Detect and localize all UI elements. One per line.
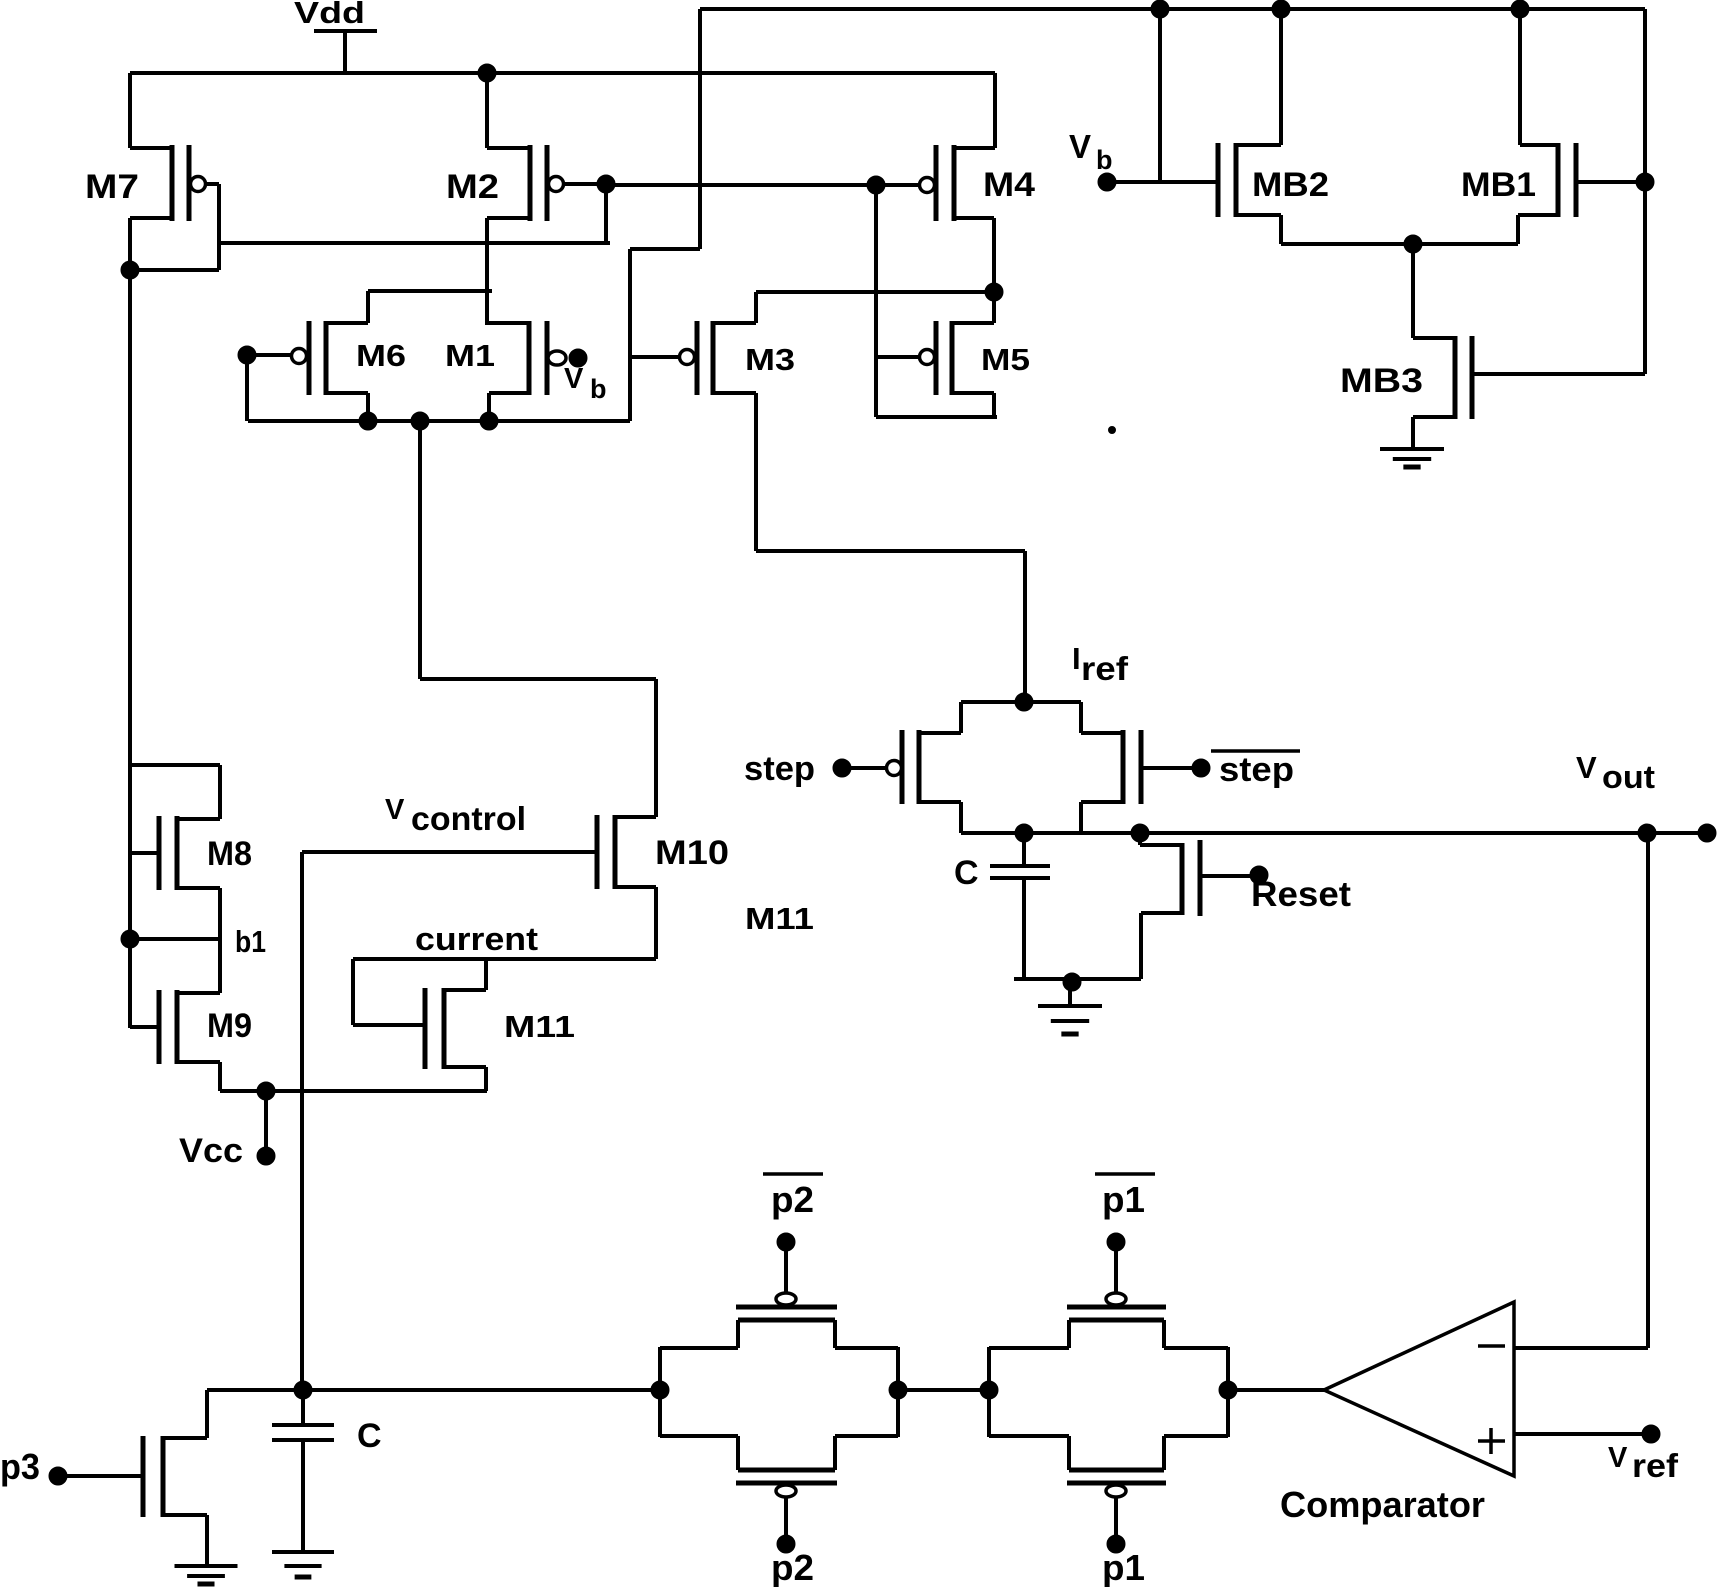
node bottom net junction [294,1381,312,1399]
node Vout terminal [1698,824,1716,842]
node Vout label [1576,750,1655,795]
transistor M9 [130,990,252,1091]
node MB1 gate junction [1636,173,1654,191]
svg-text:p1: p1 [1102,1179,1145,1220]
svg-text:MB1: MB1 [1461,166,1536,204]
transistor M8 [130,765,252,993]
ground MB3 [1380,449,1444,467]
node Comparator label [1280,1484,1485,1525]
wire Vcontrol [302,852,597,1390]
node M11 duplicate label [745,901,814,936]
svg-text:I: I [1072,641,1081,676]
svg-text:p1: p1 [1102,1547,1145,1587]
wire left bias chain vertical [128,270,132,1028]
node step-bar terminal [1192,759,1210,777]
node M6 gate terminal [238,346,256,364]
svg-text:MB3: MB3 [1340,362,1423,400]
svg-text:b: b [1096,145,1113,175]
node Vdd-M2 junction [478,64,496,82]
node Vb label at M1 [564,363,607,404]
transistor M6 [247,291,492,421]
node Iref label [1072,641,1129,687]
svg-text:M4: M4 [983,166,1035,204]
node MB3 drain junction [1404,235,1422,253]
node p2 gate terminals [777,1233,795,1553]
wire Vb rail drop [1158,9,1162,183]
wire M9-M11 source wire [220,1089,487,1093]
wire M3 source to Iref [756,393,1025,702]
transistor p3 [58,1390,207,1566]
node p3 terminal [49,1467,67,1485]
node cap ground junction [1063,973,1081,991]
node M4 gate tap [867,176,885,194]
wire top rail right drop [1643,9,1647,374]
wire M7-M2 gate wire [219,241,610,245]
svg-text:M5: M5 [981,342,1030,377]
svg-text:M1: M1 [445,338,495,373]
svg-text:C: C [954,854,979,892]
svg-text:C: C [357,1417,382,1455]
wire top rail [700,7,1645,11]
node M1 gate Vb terminal [569,349,587,367]
node TG1 left junction [651,1381,669,1399]
transmission gate step [842,702,1201,833]
node M4 drain [985,283,1003,301]
transistor M4 [920,73,1036,323]
node b1 [121,930,139,948]
node step-bar label [1211,751,1300,789]
transistor M2 [446,73,604,325]
node p3 label [0,1446,40,1487]
svg-text:current: current [415,921,538,957]
transistor MB3 [1340,244,1645,449]
node Vcc junction [257,1082,275,1100]
wire MB1-MB2 source rail [1281,242,1518,246]
wire M3-M4 drain link [756,290,996,294]
svg-text:p2: p2 [771,1547,814,1587]
wire Vb to MB2 gate [1107,180,1218,184]
wire Vcc stub [264,1091,268,1156]
wire cap bottom [1014,977,1141,981]
node Vref label [1608,1442,1679,1484]
svg-text:V: V [564,363,584,395]
node top rail junctions [1151,0,1529,18]
capacitor C bottom [272,1390,382,1552]
wire M6-M1 source rail [248,419,630,423]
wire M5 source link [876,415,997,419]
svg-text:V: V [1608,1442,1628,1474]
svg-text:Vdd: Vdd [294,0,365,30]
node Reset drain junction [1131,824,1149,842]
svg-text:M2: M2 [446,168,499,206]
wire M4-gate to M5 drop [874,185,878,417]
node step label [744,750,815,788]
node TG bottom junction [1015,824,1033,842]
transistor M3 [630,292,795,395]
node Vb label [1069,128,1113,175]
wire top rail left drop [630,9,700,421]
wire M10 drain to M6-M1 source [420,421,656,679]
node current label [415,921,538,957]
svg-text:p3: p3 [0,1446,40,1487]
svg-text:M11: M11 [504,1009,575,1044]
node step terminal [833,759,851,777]
wire Vout terminal stub [1647,831,1707,835]
wire M2-M4 gate wire [606,183,920,187]
svg-text:V: V [1069,128,1091,165]
svg-text:V: V [385,794,405,826]
wire Vdd rail [130,71,995,75]
node p2 label [771,1547,814,1587]
svg-text:M6: M6 [356,338,406,373]
node p1-bar label [1095,1174,1155,1220]
svg-text:ref: ref [1632,1447,1679,1484]
wire comparator input [1228,1388,1324,1392]
wire M6 gate to source rail [245,355,249,421]
svg-text:p2: p2 [771,1179,814,1220]
node TG2 left junction [980,1381,998,1399]
svg-text:Vcc: Vcc [179,1132,243,1170]
node Iref junction [1015,693,1033,711]
node b1 label [235,924,266,959]
svg-text:step: step [1219,751,1294,789]
svg-text:ref: ref [1081,650,1129,687]
svg-text:step: step [744,750,815,788]
node source rail junctions [359,412,498,430]
transistor MB2 [1218,9,1329,244]
ground cap [1038,979,1102,1034]
op-amp Comparator [1324,1302,1514,1476]
ground p3 [175,1566,238,1584]
node M2 gate [597,175,615,193]
node TG2 right junction [1219,1381,1237,1399]
svg-text:control: control [411,800,526,837]
node Vref terminal [1642,1425,1660,1443]
svg-text:Comparator: Comparator [1280,1484,1485,1525]
node TG1 right junction [889,1381,907,1399]
wire TG1-TG2 link [898,1388,989,1392]
node stray dot [1109,427,1116,434]
svg-text:M11: M11 [745,901,814,936]
node p1 gate terminals [1107,1233,1125,1553]
transistor M7 [85,73,219,270]
node Vcontrol label [385,794,526,837]
wire Vout net [961,831,1647,835]
ground cap bottom [272,1552,334,1577]
transistor Reset [1140,833,1259,979]
svg-text:M8: M8 [207,835,252,873]
wire M2 gate drop [604,184,608,243]
transistor M5 [876,321,1030,417]
svg-text:b1: b1 [235,924,266,959]
node Vcc label [179,1132,243,1170]
svg-text:MB2: MB2 [1252,166,1329,204]
svg-text:out: out [1602,759,1655,795]
wire bottom input net [207,1388,660,1392]
transmission gate p1 [989,1242,1228,1542]
transistor M11 [425,959,575,1091]
wire minus input from Vout [1514,833,1648,1348]
wire b1 link [130,937,220,941]
node Vout corner junction [1638,824,1656,842]
svg-text:M7: M7 [85,168,139,206]
transistor M10 [597,679,729,959]
transistor MB1 [1461,9,1645,244]
svg-text:M10: M10 [655,834,729,872]
svg-text:V: V [1576,750,1597,785]
svg-text:M3: M3 [745,342,795,377]
node Reset terminal [1250,866,1268,884]
power Vdd symbol [314,31,377,73]
node p2-bar label [763,1174,823,1220]
node p1 label [1102,1547,1145,1587]
wire plus input [1514,1432,1651,1436]
node Vcc terminal [257,1147,275,1165]
wire M7 gate-drain diode link [130,184,219,270]
node Reset label [1251,875,1351,914]
transistor M1 [445,321,566,421]
node Vb terminal [1098,173,1116,191]
power Vdd label [294,0,365,30]
node M7 drain [121,261,139,279]
wire current node [353,959,656,1025]
capacitor C step [954,833,1050,979]
svg-text:b: b [590,374,607,404]
svg-text:Reset: Reset [1251,875,1351,914]
svg-text:M9: M9 [207,1007,252,1045]
transmission gate p2 [660,1242,898,1542]
